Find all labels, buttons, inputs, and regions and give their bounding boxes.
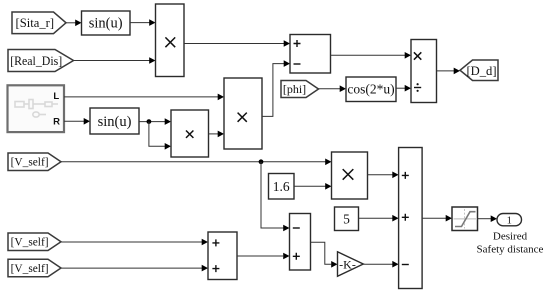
- wire S3 to gain -K-: [311, 242, 338, 267]
- svg-text:-K-: -K-: [339, 258, 356, 272]
- svg-text:[Sita_r]: [Sita_r]: [16, 16, 54, 30]
- wire 1.6 to product P4: [294, 183, 332, 190]
- wire P3 up to sum S1 minus input: [262, 60, 290, 116]
- wire saturation to outport: [478, 215, 498, 222]
- svg-text:[Real_Dis]: [Real_Dis]: [10, 54, 62, 68]
- svg-text:[phi]: [phi]: [283, 82, 306, 96]
- svg-text:cos(2*u): cos(2*u): [347, 82, 394, 97]
- gain block -K-: [338, 252, 364, 276]
- wire S2 to sum S3 plus input: [237, 253, 290, 260]
- goto tag [D_d]: [460, 60, 498, 81]
- svg-text:Safety distance: Safety distance: [477, 243, 544, 255]
- wire R to sin(u) U2: [64, 118, 90, 125]
- saturation block: [452, 207, 478, 231]
- wire P4 to big sum S4 (+1): [368, 172, 399, 179]
- product block P1: [156, 4, 185, 77]
- wire S1 to divide D1: [331, 52, 412, 59]
- wire sin(u) to product P1: [130, 19, 156, 26]
- wire Real_Dis to product P1: [74, 57, 156, 64]
- wire L to product P3: [64, 94, 224, 101]
- subsystem block (L,R): [8, 85, 65, 132]
- wire 5 to big sum S4 (+2): [359, 215, 399, 222]
- wire D1 to goto D_d: [437, 68, 461, 75]
- wire cos to divide D1: [396, 85, 411, 92]
- wire U2 to product P2 (top input): [139, 118, 171, 125]
- divide block D1 (x over /): [411, 40, 437, 103]
- from tag [V_self] #3: [8, 259, 61, 277]
- from tag [Sita_r]: [12, 12, 66, 34]
- wire gain to big sum S4 (minus): [363, 261, 398, 268]
- wire P1 to sum S1: [184, 40, 290, 47]
- block sin(u) U2: [90, 108, 139, 134]
- svg-text:Desired: Desired: [493, 231, 528, 243]
- junction node after U2: [147, 119, 152, 124]
- product block P3: [224, 78, 262, 149]
- svg-text:1.6: 1.6: [273, 179, 290, 194]
- svg-text:sin(u): sin(u): [98, 114, 132, 130]
- svg-text:L: L: [53, 91, 59, 102]
- wire branch to P2 bottom input: [149, 122, 171, 150]
- block sin(u) U1: [82, 11, 131, 35]
- svg-text:[D_d]: [D_d]: [466, 64, 496, 78]
- wire P2 to product P3 (bottom input): [209, 131, 225, 138]
- from tag [Real_Dis]: [8, 50, 74, 72]
- constant block 1.6: [269, 174, 295, 200]
- svg-text:[V_self]: [V_self]: [11, 237, 49, 249]
- wire Sita_r to sin(u): [66, 20, 82, 27]
- sum block S2 (+ +): [208, 232, 237, 280]
- svg-text:[V_self]: [V_self]: [11, 263, 49, 275]
- wire V_self1 to product P4: [61, 159, 332, 166]
- svg-text:1: 1: [507, 215, 512, 226]
- product block P2: [171, 110, 209, 157]
- sum block S1 (+ -): [290, 35, 331, 74]
- constant block 5: [335, 207, 359, 231]
- svg-text:sin(u): sin(u): [89, 16, 123, 32]
- svg-text:R: R: [53, 117, 60, 128]
- junction node on V_self wire: [259, 159, 264, 164]
- wire phi to cos block: [319, 85, 347, 92]
- sum block S3 (- +): [290, 214, 311, 271]
- wire V_self3 to sum S2: [61, 265, 208, 272]
- wire V_self2 to sum S2: [61, 239, 208, 246]
- from tag [V_self] #1: [8, 153, 61, 171]
- wire junction down to sum S3 minus input: [261, 162, 290, 232]
- svg-text:[V_self]: [V_self]: [11, 157, 49, 169]
- outport 1: [497, 214, 522, 227]
- wire S4 to saturation: [422, 215, 452, 222]
- svg-text:5: 5: [343, 212, 350, 227]
- big sum block S4 (+ + -): [399, 148, 423, 289]
- product block P4: [332, 152, 368, 199]
- from tag [V_self] #2: [8, 233, 61, 251]
- block cos(2*u): [346, 77, 396, 102]
- label Desired Safety distance: [477, 231, 544, 256]
- from tag [phi]: [281, 81, 319, 98]
